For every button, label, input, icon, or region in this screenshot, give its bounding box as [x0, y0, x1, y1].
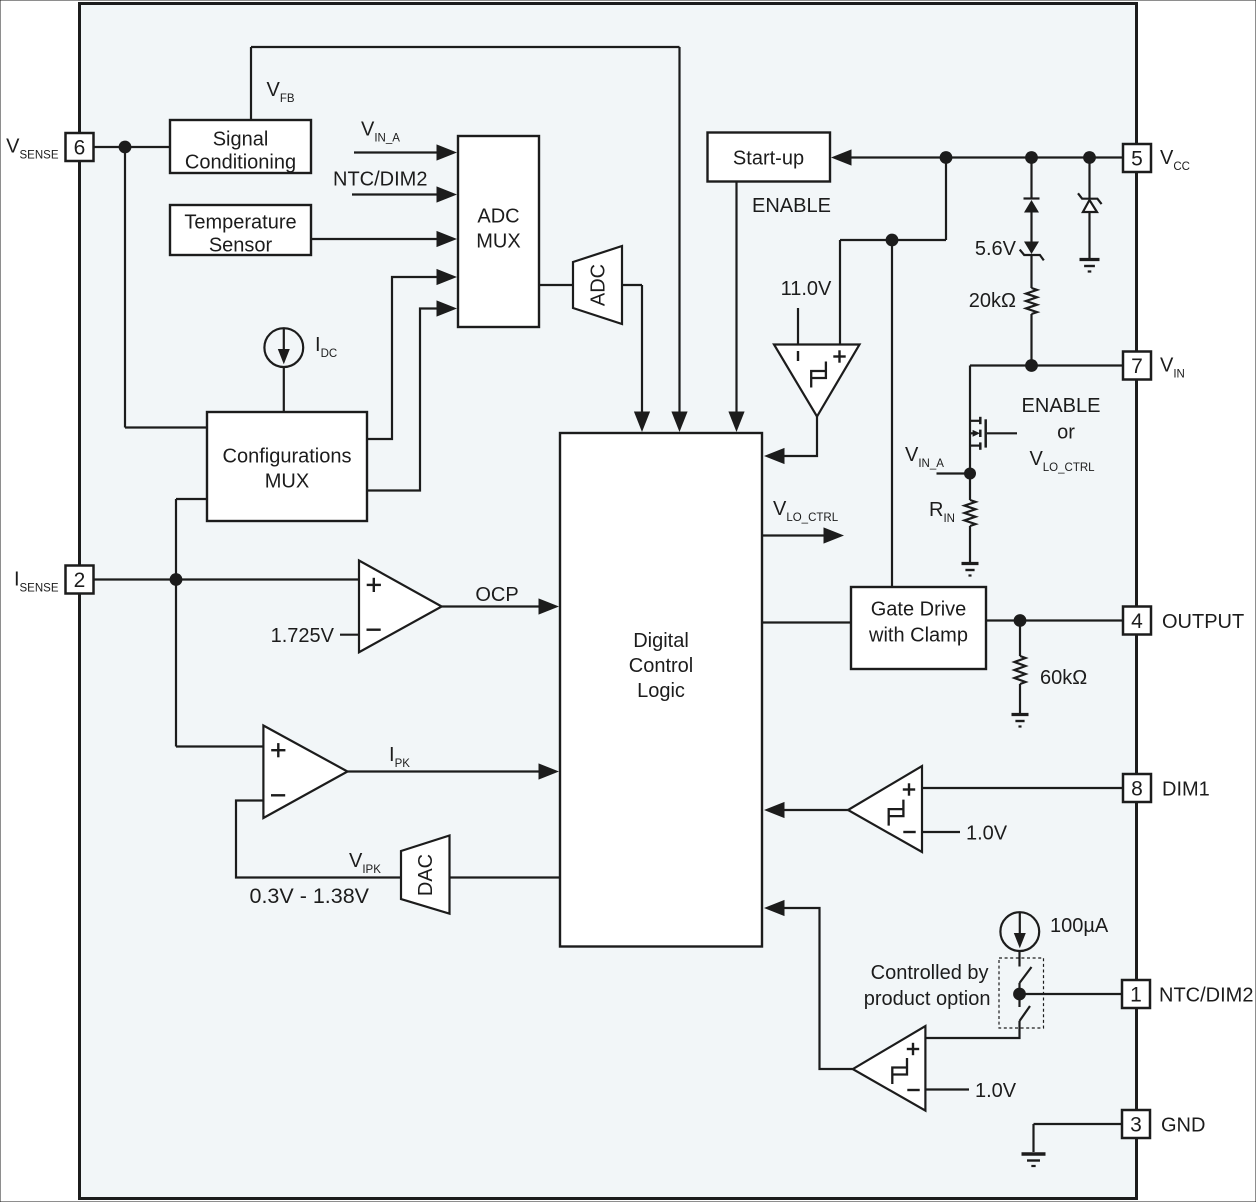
svg-text:5: 5	[1131, 148, 1143, 171]
svg-text:0.3V - 1.38V: 0.3V - 1.38V	[250, 884, 370, 908]
svg-text:1.0V: 1.0V	[966, 823, 1008, 845]
svg-text:7: 7	[1131, 355, 1143, 378]
svg-text:Controlled by: Controlled by	[871, 962, 989, 984]
svg-text:Configurations: Configurations	[223, 446, 352, 468]
svg-text:6: 6	[74, 137, 86, 160]
svg-text:1.725V: 1.725V	[271, 625, 335, 647]
svg-text:1.0V: 1.0V	[975, 1080, 1017, 1102]
svg-text:Logic: Logic	[637, 680, 685, 702]
svg-text:100µA: 100µA	[1050, 915, 1109, 937]
svg-text:2: 2	[74, 569, 86, 592]
svg-text:60kΩ: 60kΩ	[1040, 667, 1087, 689]
svg-text:5.6V: 5.6V	[975, 238, 1017, 260]
svg-text:3: 3	[1130, 1114, 1142, 1137]
svg-text:Control: Control	[629, 655, 693, 677]
svg-text:Digital: Digital	[633, 630, 689, 652]
svg-text:Signal: Signal	[213, 129, 269, 151]
svg-text:DAC: DAC	[415, 854, 437, 896]
svg-text:ADC: ADC	[477, 206, 519, 228]
svg-text:MUX: MUX	[476, 231, 520, 253]
svg-text:NTC/DIM2: NTC/DIM2	[333, 169, 427, 191]
svg-text:Start-up: Start-up	[733, 148, 804, 170]
svg-text:ADC: ADC	[588, 264, 610, 306]
svg-text:NTC/DIM2: NTC/DIM2	[1159, 985, 1253, 1007]
svg-text:8: 8	[1131, 778, 1143, 801]
svg-text:Temperature: Temperature	[184, 212, 296, 234]
svg-text:Conditioning: Conditioning	[185, 152, 296, 174]
svg-text:or: or	[1057, 422, 1075, 444]
svg-text:with Clamp: with Clamp	[868, 625, 968, 647]
svg-text:11.0V: 11.0V	[781, 278, 832, 300]
svg-text:ENABLE: ENABLE	[752, 195, 831, 217]
svg-text:DIM1: DIM1	[1162, 779, 1210, 801]
svg-text:20kΩ: 20kΩ	[969, 290, 1016, 312]
svg-text:product option: product option	[864, 988, 991, 1010]
svg-text:Sensor: Sensor	[209, 235, 273, 257]
svg-text:Gate Drive: Gate Drive	[871, 599, 967, 621]
svg-text:OUTPUT: OUTPUT	[1162, 611, 1244, 633]
svg-text:ENABLE: ENABLE	[1022, 395, 1101, 417]
svg-text:OCP: OCP	[475, 584, 518, 606]
svg-text:GND: GND	[1161, 1115, 1205, 1137]
svg-text:4: 4	[1131, 610, 1143, 633]
svg-text:MUX: MUX	[265, 471, 309, 493]
svg-text:1: 1	[1130, 984, 1142, 1007]
